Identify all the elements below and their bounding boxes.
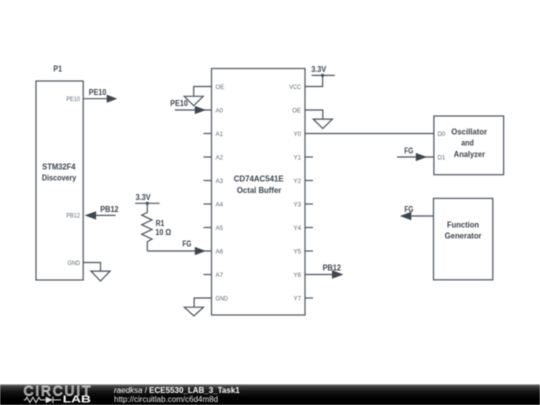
- function generator box: [434, 198, 493, 279]
- net flag arrow PB12 (to P1): [85, 211, 97, 219]
- logo diode: [46, 397, 61, 404]
- text Function Generator: [445, 219, 482, 240]
- wire PE10 from P1: [83, 98, 108, 100]
- svg-text:STM32F4: STM32F4: [42, 161, 75, 171]
- pin label Y5: [293, 248, 301, 255]
- wire Y0 to D0: [305, 133, 434, 135]
- text STM32F4 Discovery: [42, 161, 77, 182]
- label PE10 net (right of P1): [89, 88, 107, 97]
- ground (buffer GND): [184, 307, 203, 316]
- label PB12 net (at Y6): [323, 263, 342, 272]
- pin label Y7: [293, 295, 301, 302]
- pin label A5: [216, 225, 224, 232]
- svg-text:Y1: Y1: [293, 154, 301, 161]
- svg-text:3.3V: 3.3V: [311, 65, 327, 74]
- wire Y6 to PB12 flag: [305, 274, 332, 276]
- pin label GND inside P1: [68, 260, 81, 267]
- pin stub A1: [204, 133, 212, 135]
- pin label PB12 inside P1: [66, 213, 80, 220]
- net flag arrow FG (to D1): [416, 153, 427, 161]
- footer url line: [114, 395, 218, 404]
- pin label A6: [216, 248, 224, 255]
- label PE10 net (at A0): [170, 99, 188, 108]
- svg-text:A2: A2: [216, 154, 224, 161]
- svg-text:A6: A6: [216, 248, 224, 255]
- svg-text:PE10: PE10: [66, 96, 80, 103]
- pin label D1: [438, 154, 446, 161]
- pin label PE10 inside P1: [66, 96, 80, 103]
- wire PB12 into P1: [95, 214, 116, 216]
- wire FG flag to D1: [397, 156, 434, 158]
- logo LAB text: [63, 395, 91, 405]
- svg-text:and: and: [461, 138, 474, 148]
- footer credit line: [114, 386, 240, 395]
- pin stub Y5: [305, 250, 313, 252]
- svg-text:PE10: PE10: [89, 88, 107, 97]
- wire FG flag from function generator: [403, 215, 434, 217]
- connector P1 STM32F4 Discovery box: [36, 81, 83, 280]
- svg-text:A4: A4: [216, 201, 224, 208]
- label PB12 net (right of P1): [100, 205, 119, 214]
- svg-text:VCC: VCC: [289, 84, 301, 91]
- label FG net (at D1): [404, 146, 413, 155]
- ground (buffer OE input): [184, 96, 203, 105]
- svg-text:Function: Function: [447, 219, 479, 229]
- svg-text:A1: A1: [216, 131, 224, 138]
- pin label A1: [216, 131, 224, 138]
- svg-text:Y6: Y6: [293, 272, 301, 279]
- svg-text:R1: R1: [156, 219, 165, 228]
- svg-text:10 Ω: 10 Ω: [155, 228, 171, 237]
- pin label A0: [216, 107, 224, 114]
- pin label Y3: [293, 201, 301, 208]
- net flag arrow PE10 (from P1): [107, 95, 118, 103]
- text CD74AC541E Octal Buffer: [234, 173, 284, 195]
- pin label OE left: [216, 84, 225, 91]
- pin label Y0: [293, 131, 301, 138]
- pin stub Y3: [305, 203, 313, 205]
- ground (buffer OE output side): [313, 119, 332, 128]
- svg-text:A0: A0: [216, 107, 224, 114]
- svg-text:Y7: Y7: [293, 295, 301, 302]
- pin label Y6: [293, 272, 301, 279]
- svg-text:Generator: Generator: [445, 231, 482, 241]
- pin label GND: [216, 295, 229, 302]
- svg-text:3.3V: 3.3V: [136, 193, 152, 202]
- label FG net (at function generator): [404, 205, 413, 214]
- svg-text:OE: OE: [292, 107, 301, 114]
- label 3.3V (VCC rail): [311, 65, 327, 74]
- svg-text:FG: FG: [404, 146, 413, 155]
- wire OE-left to ground: [194, 87, 212, 97]
- wire PE10 flag to A0: [175, 109, 212, 111]
- pin label Y1: [293, 154, 301, 161]
- pin label A3: [216, 178, 224, 185]
- pin stub Y1: [305, 156, 313, 158]
- supply 3.3V rail (R1): [135, 202, 160, 205]
- pin label VCC: [289, 84, 301, 91]
- svg-text:P1: P1: [53, 64, 62, 73]
- svg-text:Y5: Y5: [293, 248, 301, 255]
- svg-text:PB12: PB12: [323, 263, 342, 272]
- pin label OE right: [292, 107, 301, 114]
- pin label A4: [216, 201, 224, 208]
- pin stub A3: [204, 180, 212, 182]
- pin stub Y7: [305, 297, 313, 299]
- svg-text:Y2: Y2: [293, 178, 301, 185]
- logo CIRCUIT text: [24, 384, 93, 399]
- ground (P1 GND): [91, 271, 110, 281]
- svg-text:LAB: LAB: [63, 395, 91, 405]
- wire P1 GND to ground: [83, 263, 100, 272]
- supply 3.3V rail (VCC): [312, 74, 335, 77]
- value 10 ohm: [155, 228, 171, 237]
- svg-text:FG: FG: [404, 205, 413, 214]
- svg-text:A5: A5: [216, 225, 224, 232]
- svg-text:PB12: PB12: [66, 213, 80, 220]
- pin stub Y2: [305, 180, 313, 182]
- svg-text:Oscillator: Oscillator: [451, 126, 487, 136]
- pin label Y4: [293, 225, 301, 232]
- pin stub Y4: [305, 227, 313, 229]
- svg-text:D0: D0: [438, 131, 446, 138]
- svg-text:FG: FG: [182, 240, 191, 249]
- logo resistor zigzag: [24, 397, 46, 402]
- label R1: [156, 219, 165, 228]
- svg-text:OE: OE: [216, 84, 225, 91]
- svg-text:http://circuitlab.com/c6d4m8d: http://circuitlab.com/c6d4m8d: [114, 395, 218, 404]
- pin stub A2: [204, 156, 212, 158]
- svg-text:PB12: PB12: [100, 205, 119, 214]
- svg-text:Y4: Y4: [293, 225, 301, 232]
- svg-text:Discovery: Discovery: [42, 173, 77, 183]
- net flag arrow FG (to A6): [195, 247, 206, 255]
- label 3.3V (R1 rail): [136, 193, 152, 202]
- svg-text:GND: GND: [68, 260, 81, 267]
- op-amp U1 CD74AC541E octal buffer box: [212, 69, 306, 316]
- net flag arrow FG (from function generator): [400, 212, 412, 220]
- pin label D0: [438, 131, 446, 138]
- svg-text:D1: D1: [438, 154, 446, 161]
- svg-text:A3: A3: [216, 178, 224, 185]
- net flag arrow PB12 (from Y6): [332, 270, 344, 278]
- pin label A2: [216, 154, 224, 161]
- pin stub A4: [204, 203, 212, 205]
- wire OE-right to ground: [305, 110, 323, 119]
- net flag arrow PE10 (to A0): [195, 106, 206, 114]
- pin stub A7: [204, 274, 212, 276]
- wire chip GND to ground: [194, 298, 211, 307]
- oscillator and analyzer box: [434, 116, 504, 175]
- svg-text:Y0: Y0: [293, 131, 301, 138]
- wire VCC to 3.3V supply: [305, 75, 323, 86]
- pin label Y2: [293, 178, 301, 185]
- resistor R1: [142, 203, 152, 251]
- label FG net (at A6): [182, 240, 191, 249]
- svg-text:GND: GND: [216, 295, 229, 302]
- pin stub A5: [204, 227, 212, 229]
- svg-text:Octal Buffer: Octal Buffer: [237, 185, 282, 195]
- label P1: [53, 64, 62, 73]
- footer bar: [0, 384, 540, 405]
- svg-text:PE10: PE10: [170, 99, 188, 108]
- wire R1 to A6 / FG flag: [147, 250, 211, 252]
- svg-text:Analyzer: Analyzer: [454, 149, 486, 159]
- svg-text:CD74AC541E: CD74AC541E: [234, 173, 284, 183]
- svg-text:raedksa / ECE5530_LAB_3_Task1: raedksa / ECE5530_LAB_3_Task1: [114, 386, 240, 395]
- text Oscillator and Analyzer: [451, 126, 487, 159]
- svg-text:A7: A7: [216, 272, 224, 279]
- pin label A7: [216, 272, 224, 279]
- svg-text:Y3: Y3: [293, 201, 301, 208]
